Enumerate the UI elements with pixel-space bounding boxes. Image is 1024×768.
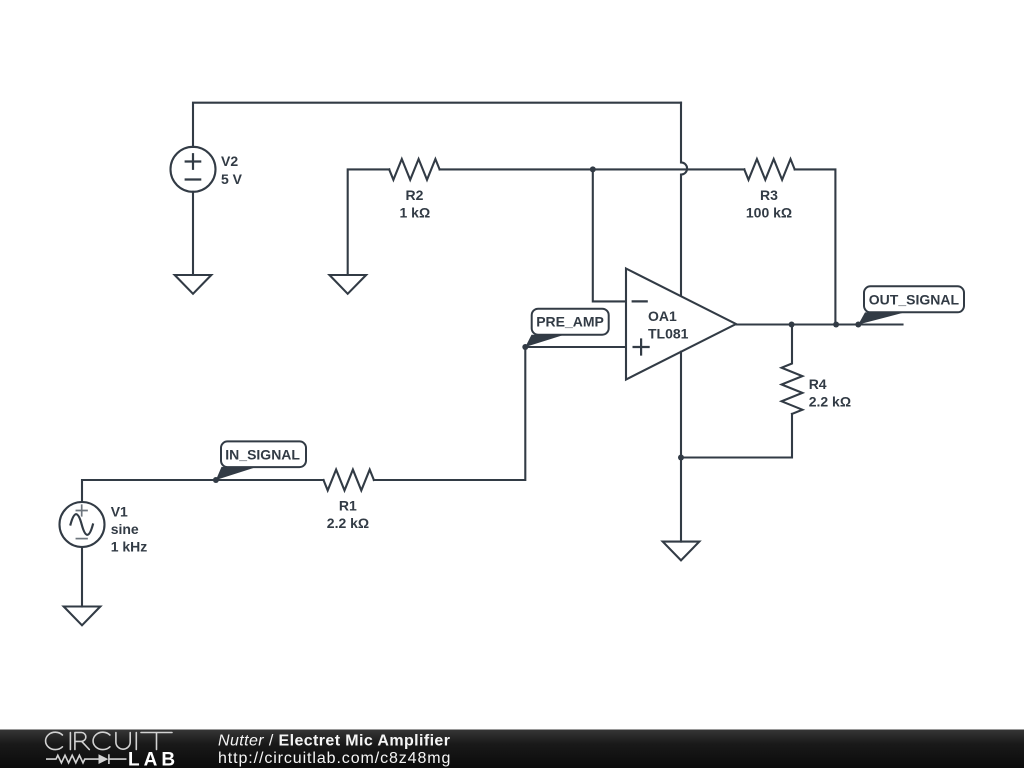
wire V1 bottom to ground bbox=[81, 547, 83, 607]
flag IN_SIGNAL bbox=[216, 441, 306, 480]
logo resistor-diode squiggle bbox=[46, 754, 127, 764]
footer bar bbox=[0, 730, 1024, 768]
svg-text:2.2 kΩ: 2.2 kΩ bbox=[809, 394, 851, 410]
svg-text:V1: V1 bbox=[111, 504, 128, 520]
svg-text:Nutter / Electret Mic Amplifie: Nutter / Electret Mic Amplifier bbox=[218, 733, 450, 750]
junction dot IN_SIGNAL bbox=[213, 477, 219, 483]
junction dot V- R4 return bbox=[678, 455, 684, 461]
ground for R2 branch bbox=[330, 275, 367, 294]
svg-text:1 kΩ: 1 kΩ bbox=[400, 205, 431, 221]
ground for V2 bbox=[175, 275, 212, 294]
svg-text:IN_SIGNAL: IN_SIGNAL bbox=[225, 446, 300, 462]
flag OUT_SIGNAL bbox=[858, 286, 964, 324]
junction dot OUT_SIGNAL bbox=[855, 322, 861, 328]
svg-text:TL081: TL081 bbox=[648, 325, 689, 341]
junction dot output at R4 bbox=[789, 322, 795, 328]
op-amp plus symbol bbox=[634, 340, 649, 355]
junction dot feedback node bbox=[590, 166, 596, 172]
wire op-amp output bbox=[736, 323, 903, 325]
svg-text:R4: R4 bbox=[809, 376, 827, 392]
resistor R2 bbox=[389, 159, 439, 180]
svg-text:sine: sine bbox=[111, 521, 139, 537]
junction dot PRE_AMP bbox=[522, 344, 528, 350]
resistor R3 bbox=[744, 159, 794, 180]
voltage source V2 bbox=[171, 147, 216, 192]
wire non-inverting input bbox=[525, 346, 626, 348]
svg-text:OA1: OA1 bbox=[648, 308, 677, 324]
wire R4 bottom to V- node bbox=[681, 414, 792, 458]
logo CIRCUIT lettering bbox=[46, 732, 172, 749]
ground for op-amp V- bbox=[663, 542, 700, 561]
svg-text:PRE_AMP: PRE_AMP bbox=[536, 314, 604, 330]
wire V2 bottom to ground bbox=[192, 192, 194, 275]
svg-text:http://circuitlab.com/c8z48mg: http://circuitlab.com/c8z48mg bbox=[218, 750, 451, 767]
op-amp OA1 triangle bbox=[626, 269, 736, 380]
resistor R1 bbox=[324, 470, 374, 491]
wire feedback node R2 to R3 bbox=[440, 168, 745, 170]
svg-text:V2: V2 bbox=[221, 153, 238, 169]
svg-text:R1: R1 bbox=[339, 498, 357, 514]
junction dot output at R3 bbox=[833, 322, 839, 328]
svg-text:2.2 kΩ: 2.2 kΩ bbox=[327, 515, 369, 531]
wire V- supply to ground bbox=[680, 352, 682, 542]
op-amp minus symbol bbox=[633, 300, 647, 302]
flag PRE_AMP bbox=[525, 309, 608, 347]
ground for V1 bbox=[64, 607, 101, 626]
wire R2 left leg to ground bbox=[348, 169, 390, 275]
svg-text:R3: R3 bbox=[760, 187, 778, 203]
wire top rail from V2 to op-amp V+ bbox=[193, 103, 681, 147]
wire R3 right to output bbox=[795, 169, 836, 324]
svg-text:LAB: LAB bbox=[128, 750, 179, 768]
svg-text:OUT_SIGNAL: OUT_SIGNAL bbox=[869, 292, 960, 308]
wire V1 to R1 bbox=[82, 480, 324, 502]
svg-text:1 kHz: 1 kHz bbox=[111, 539, 148, 555]
resistor R4 vertical bbox=[782, 325, 803, 414]
svg-text:R2: R2 bbox=[406, 187, 424, 203]
wire V+ supply with hop over feedback wire bbox=[681, 103, 687, 296]
svg-text:100 kΩ: 100 kΩ bbox=[746, 205, 792, 221]
voltage source V1 sine bbox=[60, 502, 105, 547]
svg-text:5 V: 5 V bbox=[221, 171, 243, 187]
wire inverting input bbox=[593, 169, 626, 301]
wire PRE_AMP node down to R1 bbox=[374, 347, 525, 480]
